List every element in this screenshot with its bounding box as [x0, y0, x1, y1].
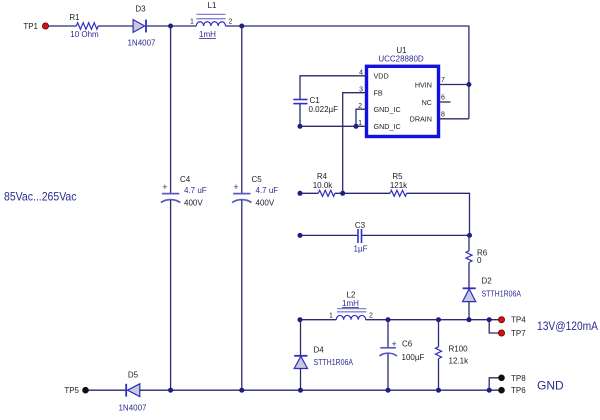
wire FB down: [343, 93, 367, 194]
wire R100 top: [438, 320, 440, 347]
svg-text:STTH1R06A: STTH1R06A: [482, 290, 522, 299]
svg-text:DRAIN: DRAIN: [410, 115, 432, 124]
junction C3 right: [467, 233, 472, 238]
svg-text:1N4007: 1N4007: [118, 404, 147, 413]
capacitor C4: [161, 175, 207, 208]
svg-text:C1: C1: [310, 96, 321, 105]
wire 13V rail: [366, 319, 502, 321]
svg-text:D3: D3: [135, 5, 146, 14]
svg-text:D5: D5: [128, 371, 139, 380]
wire second rail upper: [241, 26, 243, 193]
svg-text:TP6: TP6: [511, 386, 526, 395]
wire left rail lower: [170, 200, 172, 390]
wire TP1 to R1: [49, 25, 77, 27]
svg-text:TP8: TP8: [511, 374, 526, 383]
capacitor C6: [380, 339, 425, 362]
junction R100 bottom: [436, 388, 441, 393]
svg-text:13V@120mA: 13V@120mA: [537, 319, 598, 333]
svg-text:FB: FB: [374, 89, 383, 98]
svg-text:GND_IC: GND_IC: [374, 122, 401, 131]
svg-text:+: +: [162, 182, 167, 192]
node TP8: [498, 374, 526, 383]
svg-text:+: +: [233, 182, 238, 192]
node TP5: [64, 386, 88, 395]
svg-text:TP7: TP7: [511, 329, 526, 338]
svg-text:C6: C6: [402, 340, 413, 349]
wire DRAIN pin: [439, 118, 469, 120]
wire C3 row left: [300, 234, 357, 236]
wire R100 bottom: [438, 359, 440, 391]
svg-text:GND: GND: [537, 379, 564, 393]
inductor L2: [329, 291, 373, 320]
resistor R5: [390, 172, 408, 196]
svg-text:C4: C4: [180, 175, 191, 184]
wire D2 to 13V rail: [468, 302, 470, 320]
junction node B: [239, 24, 244, 29]
wire D3 to node A: [147, 25, 171, 27]
svg-text:R100: R100: [449, 345, 469, 354]
svg-text:1mH: 1mH: [199, 30, 216, 39]
wire node A to L1: [171, 25, 197, 27]
svg-text:121k: 121k: [390, 181, 408, 190]
junction FB node: [340, 191, 345, 196]
wire C6 bottom: [387, 354, 389, 390]
wire C3 node to R6: [468, 235, 470, 250]
junction pin2-pin1: [354, 124, 359, 129]
junction bottom left rail: [168, 388, 173, 393]
svg-text:8: 8: [441, 112, 445, 119]
junction HVIN node: [466, 82, 471, 87]
wire HVIN pin: [439, 84, 469, 86]
svg-text:7: 7: [441, 77, 445, 84]
wire D4 bottom: [300, 369, 302, 391]
junction node A: [168, 24, 173, 29]
svg-text:85Vac...265Vac: 85Vac...265Vac: [4, 190, 77, 204]
resistor R1: [69, 13, 99, 39]
svg-text:R4: R4: [317, 172, 328, 181]
diode D3: [127, 5, 156, 48]
op-amp U1 UCC28880D: [367, 46, 439, 137]
resistor R100: [436, 345, 470, 366]
svg-text:0.022µF: 0.022µF: [309, 105, 339, 114]
svg-text:1mH: 1mH: [342, 299, 359, 308]
svg-text:HVIN: HVIN: [415, 80, 432, 89]
svg-text:2: 2: [369, 313, 373, 320]
node TP7: [498, 329, 526, 338]
wire pin2 stub: [356, 109, 367, 126]
diode D4: [294, 346, 353, 369]
junction D4 bottom: [298, 388, 303, 393]
junction bottom second rail: [239, 388, 244, 393]
wire TP8 branch: [489, 378, 501, 390]
resistor R6: [466, 249, 488, 266]
svg-text:TP5: TP5: [64, 386, 79, 395]
svg-text:10.0k: 10.0k: [313, 181, 334, 190]
wire D4 top: [300, 320, 302, 356]
svg-text:0: 0: [477, 256, 482, 265]
svg-text:NC: NC: [422, 98, 432, 107]
svg-text:400V: 400V: [184, 199, 203, 208]
node TP1: [23, 22, 48, 31]
junction D2 anode: [467, 317, 472, 322]
wire 13V rail left: [300, 319, 336, 321]
svg-text:D2: D2: [482, 277, 493, 286]
wire TP7 branch: [489, 320, 501, 333]
svg-text:6: 6: [441, 95, 445, 102]
svg-text:C5: C5: [252, 175, 263, 184]
wire R1 to D3: [98, 25, 133, 27]
wire top rail to HVIN corner: [242, 26, 469, 119]
wire C3 row right: [362, 234, 469, 236]
svg-text:R1: R1: [69, 13, 80, 22]
junction C6 bottom: [386, 388, 391, 393]
svg-text:4.7 uF: 4.7 uF: [184, 186, 207, 195]
wire second rail lower: [241, 200, 243, 390]
resistor R4: [313, 172, 335, 196]
junction L2 left: [298, 317, 303, 322]
diode D2: [463, 277, 522, 302]
wire NC stub: [439, 101, 451, 103]
junction R100 top: [436, 317, 441, 322]
capacitor C1: [293, 96, 338, 114]
svg-text:100µF: 100µF: [402, 353, 425, 362]
svg-text:STTH1R06A: STTH1R06A: [314, 358, 354, 367]
svg-text:400V: 400V: [256, 199, 275, 208]
svg-text:UCC28880D: UCC28880D: [378, 55, 424, 64]
node TP4: [498, 316, 526, 325]
wire bottom rail: [140, 389, 502, 391]
wire L1 to node B: [226, 25, 242, 27]
svg-text:D4: D4: [314, 346, 325, 355]
wire C1 to GND_IC rail: [299, 104, 301, 126]
svg-text:GND_IC: GND_IC: [374, 105, 401, 114]
svg-text:C3: C3: [355, 221, 366, 230]
svg-text:R5: R5: [392, 172, 403, 181]
svg-text:10 Ohm: 10 Ohm: [70, 30, 99, 39]
wire R4 row left: [300, 192, 318, 194]
wire TP5 to D5: [89, 389, 126, 391]
inductor L1: [190, 1, 233, 39]
junction C1 bottom: [298, 124, 303, 129]
svg-text:12.1k: 12.1k: [449, 357, 470, 366]
wire R6 to D2: [468, 263, 470, 289]
wire R5 to C3 right node: [407, 193, 470, 235]
junction C6 top: [386, 317, 391, 322]
capacitor C5: [232, 175, 278, 208]
junction R4 left: [298, 191, 303, 196]
svg-text:4.7 uF: 4.7 uF: [256, 186, 279, 195]
capacitor C3: [354, 221, 368, 254]
wire C6 top: [387, 320, 389, 347]
junction C3 left: [298, 233, 303, 238]
svg-text:TP1: TP1: [23, 22, 38, 31]
svg-text:2: 2: [229, 19, 233, 26]
svg-text:L1: L1: [208, 1, 217, 10]
wire R4 to FB node: [335, 192, 390, 194]
svg-text:VDD: VDD: [374, 72, 389, 81]
svg-text:TP4: TP4: [511, 316, 526, 325]
wire pin1 GND_IC: [300, 125, 367, 127]
svg-text:1: 1: [329, 313, 333, 320]
wire VDD to C1: [300, 76, 367, 99]
diode D5: [118, 371, 147, 413]
junction TP branch GND: [487, 388, 492, 393]
node TP6: [498, 386, 526, 395]
svg-text:1N4007: 1N4007: [127, 39, 156, 48]
svg-text:1µF: 1µF: [354, 245, 368, 254]
wire left rail upper: [170, 26, 172, 193]
junction TP branch 13V: [487, 317, 492, 322]
svg-text:1: 1: [190, 19, 194, 26]
